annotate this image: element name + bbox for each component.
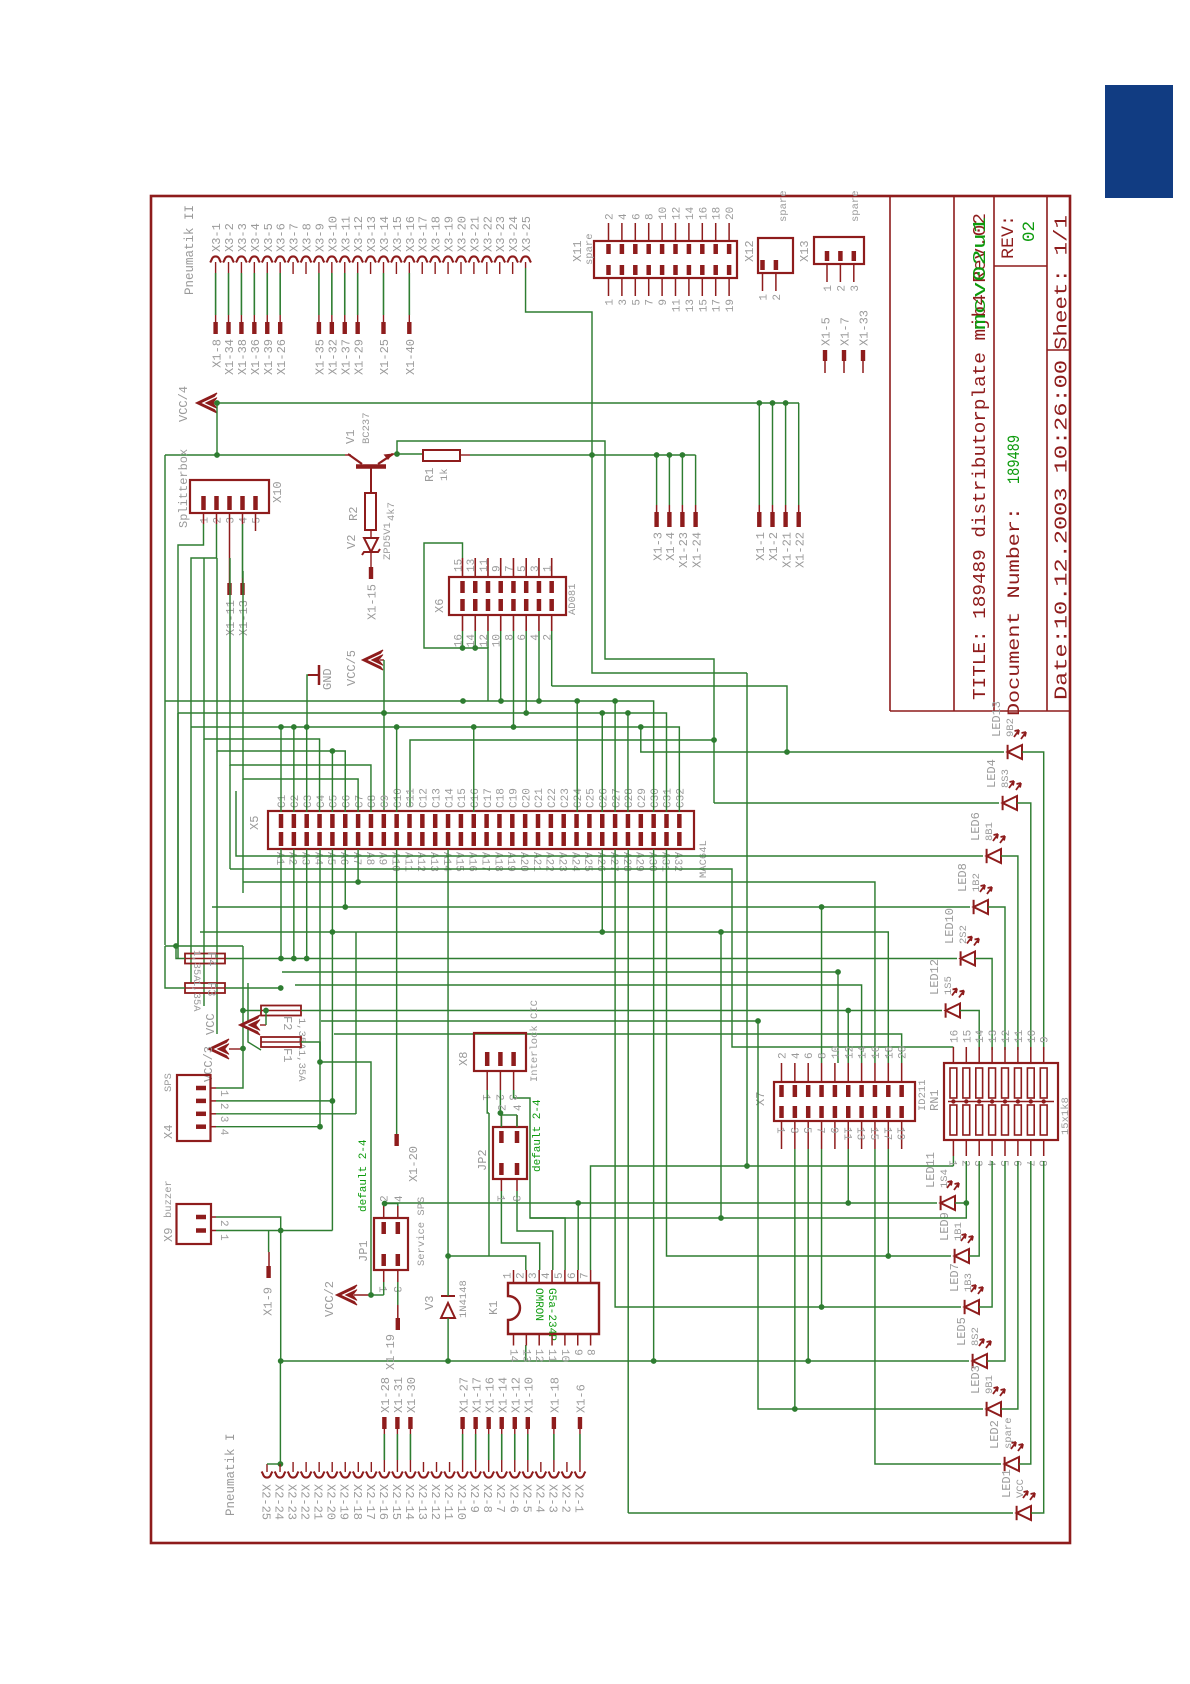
wire LED5 cathode to RN1 pin5 — [987, 1161, 1005, 1361]
svg-text:C23: C23 — [560, 788, 572, 808]
svg-text:C6: C6 — [341, 795, 353, 808]
svg-text:X2-23: X2-23 — [285, 1484, 299, 1520]
terminal X1-10 — [526, 1417, 530, 1429]
RN1 pin 9 — [1043, 1047, 1045, 1063]
wire X1-3 X1-4 X1-23 X1-24 drops — [654, 452, 660, 458]
svg-text:X1-4: X1-4 — [664, 532, 678, 561]
X5 pin C22 — [549, 814, 554, 828]
X5 pin A20 — [523, 832, 528, 846]
wire A14 net to K1 pin2 — [448, 1256, 526, 1270]
svg-text:X1-40: X1-40 — [404, 339, 418, 375]
wire X2-14 to X1-30 — [409, 1434, 411, 1460]
connector pin X3-9 — [314, 256, 325, 262]
wire LED12 cathode to RN1 pin14 — [960, 1011, 979, 1051]
terminal X1-38 — [239, 322, 243, 334]
X6 pin 13 — [473, 581, 478, 593]
wire VCC/2 net — [354, 1294, 371, 1296]
svg-text:5: 5 — [252, 517, 264, 524]
wire X6 pin2 net to LED13 drop — [552, 686, 787, 752]
svg-text:1,35A: 1,35A — [190, 980, 202, 1012]
svg-text:C19: C19 — [509, 788, 521, 808]
svg-text:14: 14 — [507, 1349, 519, 1363]
wire V1 emitter branch to C11 net — [397, 441, 714, 807]
JP2 pin 2 — [499, 1131, 504, 1143]
svg-text:X3-15: X3-15 — [391, 216, 405, 252]
wire V3 bottom to LED5 line — [447, 1318, 449, 1361]
svg-text:X1-8: X1-8 — [210, 339, 224, 368]
svg-text:X2-5: X2-5 — [519, 1484, 533, 1513]
X5 pin A32 — [677, 832, 682, 846]
wire V3 top to A14 net — [447, 1256, 449, 1296]
X5 pin A8 — [369, 832, 374, 846]
svg-text:X3-19: X3-19 — [443, 216, 457, 252]
svg-text:Document Number:: Document Number: — [1005, 507, 1025, 716]
wire X9 pin2 to X2-24 net — [216, 1217, 281, 1361]
wire X3-11 to X1-37 — [344, 273, 346, 315]
K1 pin 14 — [513, 1334, 515, 1346]
svg-text:buzzer: buzzer — [163, 1180, 175, 1218]
wire X3-25 to net — [525, 262, 527, 268]
RN1 pin 13 — [991, 1047, 993, 1063]
svg-text:6: 6 — [631, 213, 643, 220]
X5 pin A3 — [304, 832, 309, 846]
svg-text:X1-29: X1-29 — [352, 339, 366, 375]
svg-text:12: 12 — [532, 1349, 544, 1362]
wire F2 right joins LED12 line — [301, 1010, 310, 1012]
X6 pin 8 — [511, 599, 516, 611]
svg-text:G5a-234P: G5a-234P — [545, 1288, 557, 1341]
JP1 pin 1 — [381, 1254, 386, 1266]
LED LED1 — [1017, 1491, 1035, 1520]
connector X13 — [814, 237, 864, 264]
wire LED6 cathode to RN1 pin11 — [1001, 856, 1018, 1050]
wire X2-1 to X1-6 — [579, 1434, 581, 1460]
svg-text:3: 3 — [787, 1127, 799, 1134]
bus wire y1218 line — [530, 1203, 966, 1218]
wire LED8 anode line — [212, 906, 970, 908]
svg-text:V2: V2 — [345, 535, 359, 549]
svg-text:4: 4 — [530, 634, 542, 641]
terminal X1-31 — [395, 1417, 399, 1429]
X7 pin 11 — [847, 1121, 849, 1149]
svg-text:4: 4 — [541, 1272, 553, 1279]
X5 pin C3 — [304, 814, 309, 828]
wire X2-25 jog to X2-24 net — [266, 1464, 268, 1472]
svg-text:AD081: AD081 — [567, 583, 579, 615]
X12 pin 1 — [762, 273, 764, 291]
svg-text:16: 16 — [949, 1030, 961, 1043]
svg-text:X1-22: X1-22 — [793, 532, 807, 568]
svg-text:C13: C13 — [431, 788, 443, 808]
wire X2-24 to X9 net — [279, 1361, 281, 1464]
svg-text:1S4: 1S4 — [939, 1169, 951, 1188]
svg-text:F3: F3 — [204, 982, 218, 996]
K1 pin 8 — [590, 1334, 592, 1346]
wire K1 pin7 line — [591, 1166, 748, 1270]
terminal X1-15 — [369, 567, 373, 579]
svg-text:X3-17: X3-17 — [417, 216, 431, 252]
X5 pin A22 — [549, 832, 554, 846]
wire X7 pin3 drop to LED3 line — [794, 1149, 796, 1409]
svg-text:9: 9 — [492, 565, 504, 572]
connector pin X2-20 — [327, 1472, 338, 1478]
X5 pin C25 — [587, 814, 592, 828]
svg-text:C17: C17 — [483, 788, 495, 808]
X7 pin 17 — [887, 1121, 889, 1149]
X5 pin A5 — [330, 832, 335, 846]
svg-text:C1: C1 — [277, 794, 289, 808]
svg-text:19: 19 — [894, 1127, 906, 1140]
svg-text:9: 9 — [1040, 1036, 1052, 1043]
JP1 pin 2 — [381, 1222, 386, 1234]
svg-text:X3-23: X3-23 — [494, 216, 508, 252]
K1 pin 3 — [538, 1270, 540, 1283]
svg-text:14: 14 — [858, 1045, 870, 1059]
svg-text:189489: 189489 — [1005, 435, 1025, 484]
svg-text:F1: F1 — [280, 1048, 294, 1062]
LED LED4 — [1003, 781, 1021, 810]
X7 pin 3 — [794, 1121, 796, 1149]
svg-text:3: 3 — [618, 299, 630, 306]
connector pin X3-17 — [417, 256, 428, 262]
X7 pin 16 — [874, 1063, 876, 1082]
relay K1 OMRON G5a-234P — [508, 1283, 599, 1334]
svg-text:X11: X11 — [571, 240, 585, 262]
JP2 pin 3 — [515, 1163, 520, 1175]
wire drops H3 to C pins — [280, 727, 282, 812]
wire X10 pin1 vertical joins F4 — [177, 713, 179, 946]
wire F1 right to VCC/2 net — [301, 1042, 320, 1062]
wire X4 pin4 — [216, 1126, 320, 1128]
connector pin X3-10 — [326, 256, 337, 262]
connector pin X2-19 — [340, 1472, 351, 1478]
wire X10 pin2 — [216, 513, 218, 524]
connector pin X3-23 — [494, 256, 505, 262]
RN1 resistor r7 — [1027, 1068, 1034, 1098]
svg-text:A2: A2 — [286, 852, 298, 865]
connector pin X3-1 — [210, 256, 221, 262]
terminal X1-33 — [861, 350, 865, 361]
wire JP2 pin2 link — [500, 1115, 502, 1127]
X5 pin C23 — [561, 814, 566, 828]
svg-text:8: 8 — [504, 634, 516, 641]
terminal X1-11 — [227, 583, 231, 595]
svg-text:11: 11 — [545, 1349, 557, 1363]
wire X7 pin5 drop to LED5 line — [807, 1149, 809, 1361]
svg-text:3: 3 — [506, 1094, 518, 1101]
svg-text:X2-14: X2-14 — [402, 1484, 416, 1520]
ground symbol GND — [308, 674, 319, 676]
wire GND to C3 — [307, 675, 308, 727]
wire 592 net turn right — [592, 455, 747, 673]
svg-text:C10: C10 — [393, 788, 405, 808]
wire drops H2 to C pins — [601, 713, 603, 812]
svg-text:A3: A3 — [299, 852, 311, 865]
X5 pin A27 — [613, 832, 618, 846]
wire X3-14 to X1-25 — [382, 273, 384, 315]
X11 pin 20 — [728, 223, 730, 241]
wire X3-3 to X1-38 — [240, 273, 242, 315]
svg-text:C29: C29 — [637, 788, 649, 808]
wire X2-7 to X1-14 — [501, 1434, 503, 1460]
X7 pin 20 — [901, 1063, 903, 1082]
RN1 resistor r3 — [976, 1068, 983, 1098]
X8 pin 2 — [498, 1052, 503, 1066]
fuse F4 — [185, 954, 225, 964]
X11 pin 19 — [728, 278, 730, 296]
svg-text:X3-12: X3-12 — [352, 216, 366, 252]
LED LED13 — [1008, 730, 1026, 759]
wire A5 drop — [331, 849, 333, 932]
X11 pin 3 — [621, 278, 623, 296]
svg-text:17: 17 — [712, 299, 724, 312]
X10 pin5 stub lead — [255, 513, 257, 531]
X5 pin A30 — [651, 832, 656, 846]
X5 pin C28 — [626, 814, 631, 828]
svg-text:15: 15 — [867, 1127, 879, 1140]
X10 pin 1 — [201, 496, 206, 510]
X5 pin C5 — [330, 814, 335, 828]
wire X3-4 to X1-36 — [253, 273, 255, 315]
svg-text:4: 4 — [394, 1195, 406, 1202]
svg-text:X3-3: X3-3 — [236, 223, 250, 252]
svg-text:1B2: 1B2 — [971, 873, 983, 892]
X13 pin 2 — [839, 264, 841, 282]
svg-text:C21: C21 — [534, 788, 546, 808]
X5 pin C6 — [343, 814, 348, 828]
svg-text:8: 8 — [1036, 1160, 1048, 1167]
X10 pin 3 — [227, 496, 232, 510]
wire corner net C5 C6 — [217, 558, 345, 812]
K1 pin 5 — [564, 1270, 566, 1283]
RN1 pin 11 — [1017, 1047, 1019, 1063]
connector pin X2-25 — [262, 1472, 273, 1478]
svg-text:MAC64L: MAC64L — [698, 840, 710, 878]
svg-text:12: 12 — [1001, 1030, 1013, 1043]
connector pin X2-17 — [366, 1472, 377, 1478]
svg-text:C31: C31 — [663, 788, 675, 808]
svg-text:K1: K1 — [487, 1301, 501, 1315]
wire X10 pin1 — [203, 513, 205, 524]
svg-text:OMRON: OMRON — [532, 1288, 544, 1321]
X13 pin 3 — [853, 264, 855, 282]
X6 pin 10 — [498, 599, 503, 611]
wire X7 pin15 drop to LED2 — [875, 1149, 1001, 1464]
wire A5 net joins X9 — [331, 932, 333, 1231]
svg-text:C32: C32 — [676, 788, 688, 808]
svg-text:12: 12 — [479, 634, 491, 647]
wire R1 to VCC net right — [460, 454, 470, 456]
wire 747 drop to RN1 pin1 — [747, 673, 953, 1166]
svg-text:X2-11: X2-11 — [441, 1484, 455, 1520]
terminal X1-28 — [382, 1417, 386, 1429]
svg-text:X1-36: X1-36 — [249, 339, 263, 375]
wire JP1 pin3 to X1-19 — [397, 1282, 399, 1305]
connector pin X2-15 — [392, 1472, 403, 1478]
wire fuse node vertical to VCC/3 — [242, 946, 244, 1049]
connector pin X3-3 — [236, 256, 247, 262]
svg-text:X3-1: X3-1 — [210, 223, 224, 252]
svg-text:X1-39: X1-39 — [262, 339, 276, 375]
X5 pin C9 — [382, 814, 387, 828]
wire R2 to V2 — [370, 530, 372, 538]
wire LED7 cathode to RN1 pin4 — [979, 1161, 992, 1307]
svg-text:GND: GND — [321, 668, 335, 690]
X5 pin C12 — [420, 814, 425, 828]
wire X2-9 to X1-17 — [475, 1434, 477, 1460]
svg-text:11: 11 — [479, 558, 491, 572]
X11 pin 11 — [675, 278, 677, 296]
wire X7 pin11 drop to LED11 line — [847, 1149, 849, 1203]
connector pin X2-9 — [470, 1472, 481, 1478]
terminal X1-30 — [408, 1417, 412, 1429]
svg-text:C4: C4 — [316, 794, 328, 808]
wire A6 drop to LED8 line — [344, 849, 346, 907]
svg-text:X1-17: X1-17 — [470, 1377, 484, 1413]
RN1 pin 5 — [1004, 1140, 1006, 1156]
svg-text:X2-17: X2-17 — [363, 1484, 377, 1520]
svg-text:8: 8 — [584, 1349, 596, 1356]
RN1 resistor r1 — [950, 1068, 957, 1098]
wire corner net C4 — [204, 558, 320, 812]
X7 pin 7 — [821, 1121, 823, 1149]
svg-text:X3-5: X3-5 — [262, 223, 276, 252]
X6 pin 2 — [549, 599, 554, 611]
svg-text:LED4: LED4 — [985, 759, 999, 788]
X11 pin 8 — [648, 223, 650, 241]
X4 pin 1 — [196, 1086, 206, 1091]
svg-text:2: 2 — [213, 517, 225, 524]
bus wire y985 line to X7 pin14 — [295, 985, 862, 1063]
svg-text:3: 3 — [217, 1116, 229, 1123]
svg-text:20: 20 — [898, 1046, 910, 1059]
wire F3 left — [165, 946, 185, 988]
X5 pin C24 — [574, 814, 579, 828]
X5 pin A28 — [626, 832, 631, 846]
svg-text:C9: C9 — [380, 795, 392, 808]
svg-text:C24: C24 — [573, 788, 585, 808]
wire K1 pin3 to JP2 pin1 — [501, 1191, 539, 1270]
svg-text:X4: X4 — [162, 1125, 176, 1139]
svg-text:6: 6 — [567, 1272, 579, 1279]
svg-text:A6: A6 — [337, 852, 349, 865]
X5 pin C15 — [459, 814, 464, 828]
RN1 pin 4 — [991, 1140, 993, 1156]
wire X7 pin8 drop from LED8 line — [821, 907, 823, 1063]
title block lines — [889, 196, 891, 711]
RN1 pin 7 — [1030, 1140, 1032, 1156]
connector pin X3-21 — [469, 256, 480, 262]
X6 pin 11 — [486, 581, 491, 593]
svg-text:1B3: 1B3 — [963, 1273, 975, 1292]
svg-text:VCC/4: VCC/4 — [177, 386, 191, 422]
svg-text:X2-19: X2-19 — [337, 1484, 351, 1520]
svg-text:C3: C3 — [303, 795, 315, 808]
X5 pin C14 — [446, 814, 451, 828]
X5 pin C8 — [369, 814, 374, 828]
terminal X1-36 — [252, 322, 256, 334]
svg-text:X1-34: X1-34 — [223, 339, 237, 375]
LED LED2 — [1005, 1442, 1023, 1471]
connector pin X3-14 — [378, 256, 389, 262]
svg-text:A1: A1 — [273, 852, 285, 866]
svg-text:13: 13 — [519, 1349, 531, 1362]
svg-text:9B2: 9B2 — [1005, 718, 1017, 737]
frame border — [151, 196, 1070, 1543]
svg-text:X1-37: X1-37 — [339, 339, 353, 375]
svg-text:Service SPS: Service SPS — [416, 1197, 428, 1266]
X6 pin 15 — [460, 581, 465, 593]
X7 pin 6 — [807, 1063, 809, 1082]
wire VCC/5 to C9 — [380, 659, 384, 661]
svg-text:spare: spare — [584, 233, 596, 265]
X5 pin C30 — [651, 814, 656, 828]
svg-text:7: 7 — [504, 565, 516, 572]
bus wire left margin verticals — [164, 701, 166, 945]
svg-text:6: 6 — [517, 634, 529, 641]
svg-text:8: 8 — [645, 213, 657, 220]
X6 pin 14 — [473, 599, 478, 611]
connector pin X3-15 — [391, 256, 402, 262]
svg-text:12: 12 — [844, 1046, 856, 1059]
LED LED3 — [987, 1387, 1005, 1416]
svg-text:5: 5 — [631, 299, 643, 306]
connector pin X2-22 — [301, 1472, 312, 1478]
svg-text:C16: C16 — [470, 788, 482, 808]
terminal X1-29 — [355, 322, 359, 334]
svg-text:X3-8: X3-8 — [301, 223, 315, 252]
svg-text:LED5: LED5 — [955, 1317, 969, 1346]
svg-text:17: 17 — [880, 1127, 892, 1140]
terminal X1-13 — [240, 583, 244, 595]
svg-text:spare: spare — [778, 190, 790, 222]
connector pin X2-21 — [314, 1472, 325, 1478]
svg-text:X2-10: X2-10 — [454, 1484, 468, 1520]
svg-text:LED12: LED12 — [928, 959, 942, 995]
X5 pin A6 — [343, 832, 348, 846]
LED LED11 — [941, 1181, 959, 1210]
connector pin X3-18 — [430, 256, 441, 262]
X11 pin 5 — [634, 278, 636, 296]
terminal X1-32 — [330, 322, 334, 334]
svg-text:14: 14 — [685, 206, 697, 220]
wire VCC horizontal y455 — [165, 454, 345, 456]
svg-text:V1: V1 — [344, 430, 358, 444]
svg-text:X1-2: X1-2 — [767, 532, 781, 561]
svg-text:12: 12 — [672, 207, 684, 220]
wire corner net C7 — [243, 571, 358, 812]
K1 pin 4 — [551, 1270, 553, 1283]
svg-text:6: 6 — [804, 1052, 816, 1059]
JP2 pin 4 — [515, 1131, 520, 1143]
svg-text:A4: A4 — [311, 852, 323, 866]
connector pin X3-25 — [520, 256, 531, 262]
wire X4 pin2 to X9 net — [216, 1100, 332, 1102]
svg-text:X3-2: X3-2 — [223, 223, 237, 252]
wire X10 pin4 to X1-13 — [242, 513, 244, 524]
svg-text:3: 3 — [530, 565, 542, 572]
connector pin X2-5 — [522, 1472, 533, 1478]
svg-text:1: 1 — [945, 1160, 957, 1167]
X5 pin C4 — [317, 814, 322, 828]
wire LED4 cathode to RN1 pin10 — [1017, 803, 1031, 1050]
terminal X1-9 — [266, 1266, 270, 1278]
wire JP2 pin4 link — [516, 1115, 518, 1127]
svg-text:C20: C20 — [521, 788, 533, 808]
svg-text:F2: F2 — [280, 1016, 294, 1030]
svg-text:13: 13 — [466, 559, 478, 572]
svg-text:4: 4 — [513, 1104, 525, 1111]
